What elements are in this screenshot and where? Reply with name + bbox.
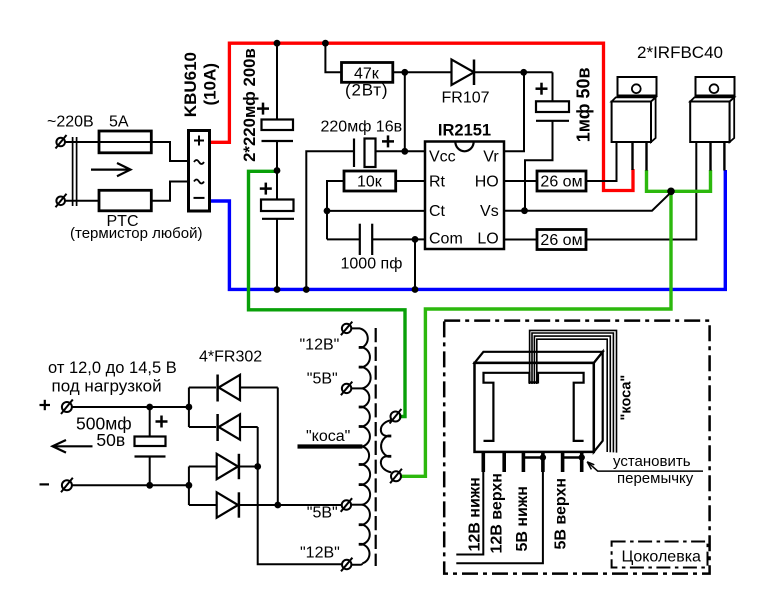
- pinout pins: [483, 452, 581, 472]
- label PTC: [107, 213, 139, 230]
- label 5A: [109, 114, 129, 131]
- transistor Q2 IRFBC40: [690, 77, 734, 171]
- label 1mF 50v: [574, 67, 594, 142]
- label FR107: [442, 90, 490, 107]
- svg-text:"коса": "коса": [619, 375, 635, 421]
- wire blue -rail: [210, 170, 726, 289]
- capacitor 2*220uF lower: [260, 172, 294, 290]
- svg-text:~220В: ~220В: [47, 114, 94, 131]
- svg-text:Vr: Vr: [483, 149, 499, 166]
- label KBU610: [181, 52, 200, 117]
- svg-text:26 ом: 26 ом: [540, 173, 582, 190]
- label 5V top: [307, 371, 338, 388]
- wire green to transformer primary top: [249, 171, 406, 416]
- label 12V verh: [489, 473, 506, 553]
- transformer secondary terminal 5V top: [341, 382, 363, 396]
- transformer secondary terminal 12V top: [341, 322, 352, 336]
- svg-text:(термистор любой): (термистор любой): [70, 225, 202, 242]
- svg-text:(10A): (10A): [201, 63, 220, 106]
- wire red +310V rail: [210, 43, 634, 190]
- transformer primary terminal bottom: [390, 469, 402, 484]
- label kosa: [306, 428, 350, 445]
- diode D2 FR302: [189, 414, 258, 441]
- pinout pin4 wire: [456, 472, 543, 563]
- svg-text:5A: 5A: [109, 114, 129, 131]
- wire Vr: [504, 72, 524, 151]
- transformer secondary winding: [351, 328, 370, 564]
- transistor Q1 IRFBC40: [612, 77, 657, 171]
- svg-text:"12В": "12В": [300, 545, 340, 562]
- label 12V top: [300, 337, 340, 354]
- svg-text:HO: HO: [475, 174, 499, 191]
- svg-text:220мф 16в: 220мф 16в: [321, 119, 403, 136]
- label 4*FR302: [199, 349, 262, 366]
- diode D4 FR302: [189, 492, 278, 517]
- svg-text:2*220мф 200в: 2*220мф 200в: [240, 48, 259, 162]
- plus sign output: [40, 400, 51, 410]
- svg-text:"12В": "12В": [300, 337, 340, 354]
- svg-text:"5В": "5В": [307, 505, 338, 522]
- pinout dash-dot border: [444, 321, 709, 574]
- capacitor 220uF 16v: [306, 135, 425, 289]
- label 5V verh: [552, 478, 569, 550]
- wire Vcc node vertical: [404, 72, 406, 151]
- capacitor 2*220uF upper: [257, 43, 293, 172]
- resistor 47k: [325, 43, 451, 82]
- svg-text:перемычку: перемычку: [617, 470, 694, 487]
- bridge rectifier KBU610: [189, 131, 210, 212]
- arrow jumper pointer: [587, 462, 703, 471]
- input terminal top: [56, 135, 67, 149]
- transformer secondary terminal 12V bottom: [341, 558, 352, 572]
- label (10A): [201, 63, 220, 106]
- svg-text:"5В": "5В": [307, 371, 338, 388]
- output terminal minus: [61, 478, 73, 493]
- label 500mF 50v: [76, 414, 132, 451]
- kosa tap thick line: [298, 444, 363, 448]
- label 2*220mF 200v: [240, 48, 259, 162]
- label thermistor: [70, 225, 202, 242]
- wire Com down: [414, 239, 416, 289]
- output terminal plus: [61, 400, 73, 415]
- svg-text:FR107: FR107: [442, 90, 490, 107]
- diode D1 FR302: [189, 375, 278, 402]
- capacitor 1000pF: [327, 224, 425, 255]
- junction dots bottom: [146, 404, 281, 509]
- label 5V nizh: [514, 486, 531, 551]
- label 12V bottom: [300, 545, 340, 562]
- transformer primary terminal top: [390, 409, 402, 424]
- minus sign output: [40, 483, 50, 485]
- thermistor PTC: [99, 190, 151, 211]
- label ~220V: [47, 114, 94, 131]
- pinout transformer body: [475, 352, 603, 452]
- svg-text:KBU610: KBU610: [181, 52, 200, 117]
- resistor 10k: [327, 171, 425, 239]
- input terminal bottom: [56, 194, 67, 208]
- transformer secondary terminal 5V bottom: [341, 498, 363, 512]
- svg-text:Vcc: Vcc: [429, 149, 456, 166]
- svg-text:(2Вт): (2Вт): [345, 81, 388, 100]
- wire Vs: [504, 192, 671, 210]
- svg-text:12В нижн: 12В нижн: [466, 477, 483, 551]
- wire diode buses: [189, 388, 342, 565]
- wire input bottom: [65, 200, 99, 202]
- svg-text:Vs: Vs: [480, 203, 499, 220]
- svg-text:2*IRFBC40: 2*IRFBC40: [637, 43, 723, 62]
- label 5V bottom: [307, 505, 338, 522]
- svg-text:LO: LO: [477, 230, 498, 247]
- svg-text:4*FR302: 4*FR302: [199, 349, 262, 366]
- transformer core: [375, 328, 377, 566]
- capacitor 1uF 50v bootstrap: [524, 72, 569, 210]
- label kosa rotated: [619, 375, 635, 421]
- label (2Wt): [345, 81, 388, 100]
- pinout jumper bars: [523, 454, 585, 460]
- plug connector lines: [73, 137, 77, 206]
- resistor 26 ohm HO: [504, 142, 617, 191]
- wire Ct: [327, 210, 425, 212]
- svg-text:10к: 10к: [357, 173, 383, 190]
- svg-text:50в: 50в: [96, 430, 125, 450]
- capacitor 500uF: [135, 407, 168, 485]
- label ustanovit: [613, 453, 694, 487]
- svg-text:1мф 50в: 1мф 50в: [574, 67, 594, 142]
- svg-text:12В верхн: 12В верхн: [489, 473, 506, 553]
- wire PTC to bridge: [151, 182, 188, 201]
- svg-text:5В нижн: 5В нижн: [514, 486, 531, 551]
- svg-text:от 12,0 до 14,5 В: от 12,0 до 14,5 В: [48, 359, 177, 377]
- svg-text:установить: установить: [613, 453, 691, 470]
- svg-text:26 ом: 26 ом: [540, 232, 582, 249]
- wire plus rail: [72, 406, 189, 408]
- op-amp U1 IR2151: [425, 142, 504, 250]
- diode FR107: [452, 60, 524, 86]
- junction dots top section: [274, 40, 675, 293]
- label 1000 pF: [341, 256, 403, 273]
- svg-text:5В верхн: 5В верхн: [552, 478, 569, 550]
- wire green half-bridge midpoint: [401, 170, 711, 476]
- svg-text:Цоколевка: Цоколевка: [622, 549, 702, 566]
- label IR2151: [438, 122, 491, 140]
- wire minus rail: [72, 484, 189, 486]
- label 12V nizh: [466, 477, 483, 551]
- label output voltage: [48, 359, 177, 395]
- label 220mF 16v: [321, 119, 403, 136]
- wire fuse to bridge: [151, 142, 188, 161]
- label 2*IRFBC40: [637, 43, 723, 62]
- diode D3 FR302: [189, 454, 258, 479]
- resistor 26 ohm LO: [504, 142, 696, 250]
- svg-text:1000 пф: 1000 пф: [341, 256, 403, 273]
- svg-text:Com: Com: [429, 230, 463, 247]
- arrow current direction right: [91, 163, 131, 176]
- pinout kosa wire bundle: [530, 330, 617, 452]
- tsokolevka box: [612, 542, 708, 568]
- transformer primary winding: [381, 420, 391, 472]
- arrow load direction left: [53, 440, 93, 453]
- fuse 5A: [99, 131, 170, 153]
- svg-text:IR2151: IR2151: [438, 122, 491, 140]
- svg-text:под нагрузкой: под нагрузкой: [52, 376, 162, 395]
- svg-text:"коса": "коса": [306, 428, 350, 445]
- svg-text:Rt: Rt: [429, 174, 446, 191]
- pinout pin1 wire: [456, 472, 483, 555]
- svg-text:Ct: Ct: [429, 203, 446, 220]
- wire input top: [65, 141, 99, 143]
